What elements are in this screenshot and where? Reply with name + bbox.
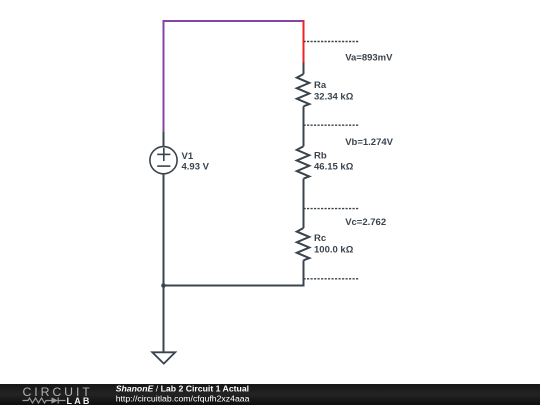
wire: purple net (top node) — [164, 21, 304, 133]
svg-text:4.93 V: 4.93 V — [182, 162, 210, 173]
svg-text:Rc: Rc — [314, 233, 326, 244]
wire: bottom horizontal — [164, 285, 304, 287]
wire: Ra-Rb segment (node Vb) — [303, 106, 305, 146]
voltage source V1 — [150, 147, 177, 174]
svg-text:Vc=2.762: Vc=2.762 — [345, 217, 386, 228]
wire: red net Va — [303, 20, 305, 63]
wire: Ra top lead — [303, 63, 305, 75]
probe dashed line node Vc — [304, 208, 360, 210]
CircuitLab logo resistor+diode glyph — [23, 397, 66, 403]
svg-text:100.0 kΩ: 100.0 kΩ — [314, 244, 354, 255]
svg-text:Vb=1.274V: Vb=1.274V — [345, 137, 393, 148]
resistor Rc — [297, 228, 310, 260]
svg-text:Rb: Rb — [314, 150, 327, 161]
wire: V1 top lead — [163, 132, 165, 146]
wire: Rb-Rc segment (node Vc) — [303, 179, 305, 228]
svg-text:32.34 kΩ: 32.34 kΩ — [314, 91, 354, 102]
svg-text:Ra: Ra — [314, 80, 327, 91]
resistor Rb — [297, 146, 310, 178]
ground — [152, 352, 175, 363]
node junction dot — [161, 283, 166, 288]
svg-text:ShanonE / Lab 2 Circuit 1 Actu: ShanonE / Lab 2 Circuit 1 Actual — [116, 384, 249, 394]
svg-text:V1: V1 — [182, 151, 194, 162]
svg-text:LAB: LAB — [67, 396, 92, 405]
probe dashed line bottom node — [304, 278, 360, 280]
resistor Ra — [297, 74, 310, 106]
wire: V1 bottom lead down to ground junction — [163, 174, 165, 353]
probe dashed line node Va — [304, 41, 360, 43]
svg-text:46.15 kΩ: 46.15 kΩ — [314, 161, 354, 172]
svg-text:http://circuitlab.com/cfqufh2x: http://circuitlab.com/cfqufh2xz4aaa — [116, 393, 250, 403]
svg-text:Va=893mV: Va=893mV — [345, 53, 393, 64]
wire: Rc bottom lead — [303, 260, 305, 286]
probe dashed line node Vb — [304, 124, 360, 126]
